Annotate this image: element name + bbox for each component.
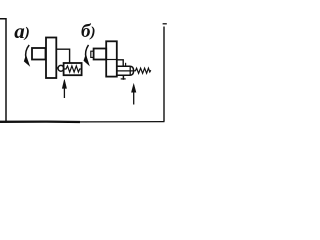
up arrow under spring box (fig a) <box>63 87 65 98</box>
block tall rectangle (fig b) <box>106 41 117 76</box>
spring zigzag (fig b) <box>134 68 151 73</box>
left frame border <box>0 19 6 121</box>
block tall rectangle (fig a) <box>46 38 56 79</box>
right frame border <box>163 27 165 122</box>
roller circle (fig a) <box>56 67 58 69</box>
svg-text:б): б) <box>81 21 95 42</box>
connector L-line to spring box (fig a) <box>56 49 69 63</box>
curved rotation arrow (fig a) <box>26 45 30 59</box>
spring box (fig a) <box>64 63 82 75</box>
stub rect left of piston (fig b) <box>91 51 94 57</box>
connector L-line to cylinder (fig b) <box>117 60 123 67</box>
bottom frame border <box>0 120 80 123</box>
cylinder mid line (fig b) <box>117 70 133 72</box>
spring zigzag inside box (fig a) <box>64 66 82 72</box>
rod line through block (fig b) <box>106 59 117 61</box>
inlet tick at cylinder top (fig b) <box>125 63 127 67</box>
cylinder capsule (fig b) <box>117 66 134 75</box>
piston square (fig a) <box>32 48 46 60</box>
piston square (fig b) <box>94 49 107 60</box>
up arrow under cylinder (fig b) <box>133 91 135 105</box>
stub below cylinder (fig b) <box>122 76 124 80</box>
curved rotation arrow (fig b) <box>86 45 89 58</box>
piston plate in cylinder (fig b) <box>129 67 131 75</box>
